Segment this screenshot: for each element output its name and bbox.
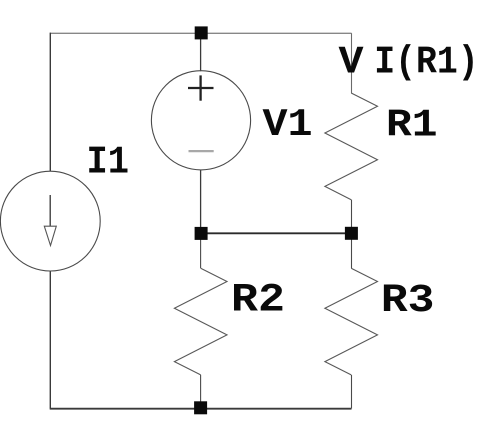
svg-text:R3: R3 [381,278,435,323]
svg-text:R1: R1 [386,103,438,147]
svg-text:V: V [339,41,365,85]
svg-text:I(R1): I(R1) [374,41,479,85]
svg-text:R2: R2 [231,278,285,323]
svg-text:I1: I1 [87,140,130,184]
svg-text:V1: V1 [263,103,313,147]
